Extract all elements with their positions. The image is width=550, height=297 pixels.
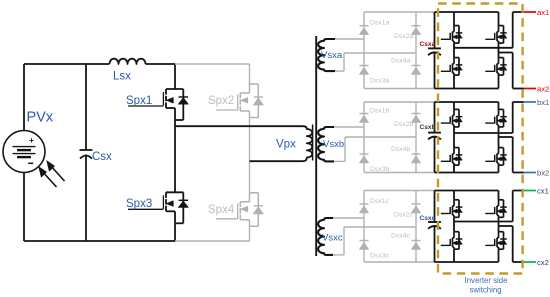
wire output cx1	[513, 190, 524, 192]
svg-text:Lsx: Lsx	[113, 71, 131, 83]
rectifier bridge phase a top rail	[364, 11, 435, 13]
rectifier bridge phase b bottom rail	[364, 172, 435, 174]
svg-text:Dsx3a: Dsx3a	[370, 78, 389, 85]
MOSFET Spx1	[166, 88, 183, 90]
rectifier bridge phase c bottom rail	[364, 261, 435, 263]
rectifier bridge phase a bottom rail	[364, 88, 435, 90]
svg-text:Csxc: Csxc	[420, 215, 436, 222]
svg-text:PVx: PVx	[27, 110, 54, 126]
svg-text:bx1: bx1	[537, 98, 549, 107]
svg-text:Dsx2b: Dsx2b	[394, 121, 413, 128]
svg-text:Dsx3b: Dsx3b	[370, 166, 389, 173]
svg-text:Dsx1a: Dsx1a	[370, 20, 389, 27]
inverter bridge b bottom rail	[435, 172, 499, 174]
rectifier bridge phase a right rail	[415, 12, 417, 89]
svg-text:Spx2: Spx2	[208, 95, 234, 107]
diode Dsx4a	[412, 65, 421, 67]
inverter bridge b top rail	[435, 101, 499, 103]
wire left leg upper	[174, 64, 176, 89]
wire output bx2	[513, 172, 524, 174]
wire gray right leg middle	[249, 118, 251, 193]
inverter bridge c top rail	[435, 190, 499, 192]
inverter side switching dashed box	[438, 4, 523, 274]
svg-text:Dsx1c: Dsx1c	[370, 198, 389, 205]
MOSFET Spx2 (inactive)	[250, 83, 259, 85]
PV source PVx	[3, 131, 45, 173]
wire secondary b to bridge	[334, 126, 364, 128]
wire midpoint b left leg to output	[454, 132, 513, 134]
wire midpoint c right leg to output	[499, 225, 513, 227]
diode Dsx1a	[360, 25, 369, 27]
inverter bridge a top rail	[435, 11, 499, 13]
svg-text:Dsx2a: Dsx2a	[394, 33, 413, 40]
wire secondary c to bridge	[333, 217, 364, 219]
wire gray bottom rail	[175, 240, 250, 242]
rectifier bridge phase c top rail	[364, 190, 435, 192]
wire secondary a to bridge	[335, 38, 364, 40]
diode Dsx1b	[360, 113, 369, 115]
capacitor Csxb dc-link	[434, 102, 436, 133]
wire output ax1	[513, 11, 524, 13]
inverter bridge a bottom rail	[435, 88, 499, 90]
svg-text:Dsx1b: Dsx1b	[370, 107, 389, 114]
diode Dsx3a	[360, 65, 369, 67]
wire gray right leg lower	[249, 226, 251, 241]
svg-text:switching: switching	[469, 286, 501, 295]
wire midpoint b right leg to output	[499, 136, 513, 138]
inverter bridge b left leg	[453, 102, 455, 109]
svg-text:ax2: ax2	[537, 85, 549, 94]
secondary winding Vsxb	[318, 127, 334, 161]
svg-text:cx2: cx2	[537, 258, 549, 267]
wire midpoint a left leg to output	[454, 47, 513, 49]
rectifier bridge phase b left rail	[363, 102, 365, 173]
transformer primary Vpx	[175, 126, 312, 161]
inverter bridge c right leg	[498, 191, 500, 200]
diode Dsx1c	[360, 203, 369, 205]
wire output ax2	[513, 88, 524, 90]
svg-text:Vsxa: Vsxa	[321, 50, 343, 61]
svg-text:Dsx4a: Dsx4a	[391, 58, 410, 65]
capacitor Csxa dc-link	[434, 12, 436, 48]
svg-text:bx2: bx2	[537, 169, 549, 178]
diode Dsx2c	[412, 203, 421, 205]
rectifier bridge phase c left rail	[363, 191, 365, 263]
svg-text:ax1: ax1	[537, 8, 549, 17]
svg-text:cx1: cx1	[537, 187, 549, 196]
wire left leg middle	[174, 120, 176, 192]
inverter bridge b right leg	[498, 102, 500, 109]
rectifier bridge phase b right rail	[415, 102, 417, 173]
svg-text:Dsx3c: Dsx3c	[370, 253, 389, 260]
wire bottom rail	[24, 240, 175, 242]
capacitor Csx branch wire	[85, 64, 87, 150]
inverter bridge c left leg	[453, 191, 455, 200]
secondary winding Vsxa	[318, 39, 335, 71]
inverter bridge a left leg	[453, 12, 455, 26]
svg-text:Spx4: Spx4	[208, 204, 235, 216]
transformer core	[312, 125, 314, 161]
inverter bridge c bottom rail	[435, 261, 499, 263]
svg-text:Dsx4b: Dsx4b	[391, 146, 410, 153]
diode Dsx3c	[360, 240, 369, 242]
wire output bx1	[513, 101, 524, 103]
wire midpoint c left leg to output	[454, 221, 513, 223]
diode Dsx4c	[412, 240, 421, 242]
svg-text:Csxa: Csxa	[420, 41, 436, 48]
svg-text:Csx: Csx	[92, 151, 112, 163]
svg-text:Inverter side: Inverter side	[465, 276, 508, 285]
svg-text:Spx3: Spx3	[126, 198, 152, 210]
inductor Lsx	[110, 59, 146, 64]
MOSFET Spx4 (inactive)	[250, 192, 259, 194]
capacitor Csx	[80, 149, 93, 151]
wire left rail	[23, 64, 25, 131]
svg-text:Vpx: Vpx	[276, 139, 296, 151]
capacitor Csxc dc-link	[434, 191, 436, 223]
rectifier bridge phase b top rail	[364, 101, 435, 103]
svg-text:Csxb: Csxb	[420, 124, 436, 131]
svg-text:+: +	[29, 135, 34, 145]
rectifier bridge phase a left rail	[363, 12, 365, 89]
light arrows into PV	[41, 170, 57, 187]
svg-text:Dsx4c: Dsx4c	[391, 233, 410, 240]
diode Dsx2b	[412, 113, 421, 115]
diode Dsx2a	[412, 25, 421, 27]
wire left leg lower	[174, 223, 176, 241]
diode Dsx3b	[360, 153, 369, 155]
MOSFET Spx3	[166, 191, 183, 193]
secondary winding Vsxc	[318, 218, 333, 255]
diode Dsx4b	[412, 153, 421, 155]
wire top rail (PV+ to bridge)	[24, 63, 110, 65]
svg-text:Vsxc: Vsxc	[322, 233, 343, 244]
inverter bridge a right leg	[498, 12, 500, 26]
svg-text:Vsxb: Vsxb	[323, 139, 344, 150]
wire gray right leg upper	[249, 64, 251, 85]
wire gray top rail	[175, 63, 250, 65]
wire output cx2	[513, 261, 524, 263]
wire midpoint a right leg to output	[499, 52, 513, 54]
rectifier bridge phase c right rail	[415, 191, 417, 263]
svg-text:Spx1: Spx1	[126, 95, 152, 107]
svg-text:Dsx2c: Dsx2c	[394, 211, 413, 218]
